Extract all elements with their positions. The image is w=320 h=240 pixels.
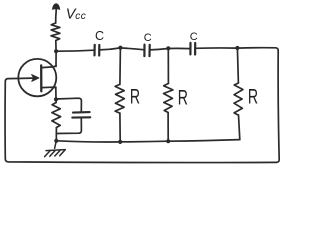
wire feedback left side up to gate (5, 79, 8, 159)
node ground junction (54, 139, 58, 143)
wire C1 to node N1 (99, 48, 120, 50)
ground (45, 141, 66, 157)
wire drain node down to transistor (drain/source vertical) (55, 51, 57, 99)
capacitor C1 (95, 29, 105, 56)
capacitor CS (source bypass) (72, 112, 90, 118)
wire feedback right side down (277, 51, 280, 163)
source lead (42, 86, 56, 88)
resistor R1 (115, 48, 140, 142)
wire RD to drain node (55, 41, 57, 52)
svg-text:C: C (190, 31, 198, 43)
channel bar (40, 65, 42, 91)
power supply Vcc arrow (52, 3, 60, 10)
gate lead with arrow (8, 77, 37, 80)
wire feedback bottom (5, 159, 276, 163)
node drain junction (54, 49, 58, 53)
wire N2 to C3 (168, 47, 189, 49)
wire C2 to node N2 (150, 49, 169, 50)
node N1 (118, 46, 122, 50)
svg-text:R: R (248, 86, 258, 109)
svg-text:cc: cc (75, 11, 86, 22)
wire N3 to top-right corner (feedback) (237, 48, 278, 51)
transistor body circle (18, 59, 56, 96)
wire drain node to C1 (56, 50, 94, 51)
resistor R3 (234, 48, 258, 140)
resistor RD (drain load, unlabeled) (51, 23, 60, 41)
wire bypass capacitor back to source resistor (56, 118, 81, 134)
resistor R2 (164, 48, 188, 141)
wire N1 to C2 (120, 48, 143, 50)
svg-text:C: C (95, 29, 104, 43)
Vcc label (66, 6, 87, 22)
node R2 bottom (166, 139, 170, 143)
svg-text:R: R (178, 87, 188, 110)
transistor Q1 (N-JFET) (8, 59, 56, 96)
node R1 bottom (118, 140, 122, 144)
node N3 (235, 46, 239, 50)
node source junction (54, 97, 58, 101)
resistor RS (source, unlabeled) (52, 103, 61, 128)
node N2 (166, 46, 170, 50)
drain lead (42, 66, 56, 68)
wire ground rail (56, 140, 240, 142)
svg-text:R: R (130, 86, 140, 109)
capacitor C3 (190, 31, 198, 55)
capacitor C2 (144, 32, 152, 56)
wire source resistor to ground node (55, 99, 57, 140)
wire Vcc arrow to drain resistor (55, 11, 58, 24)
wire C3 to node N3 (195, 47, 237, 49)
svg-text:C: C (144, 32, 152, 44)
wire source node to bypass capacitor (56, 98, 81, 112)
